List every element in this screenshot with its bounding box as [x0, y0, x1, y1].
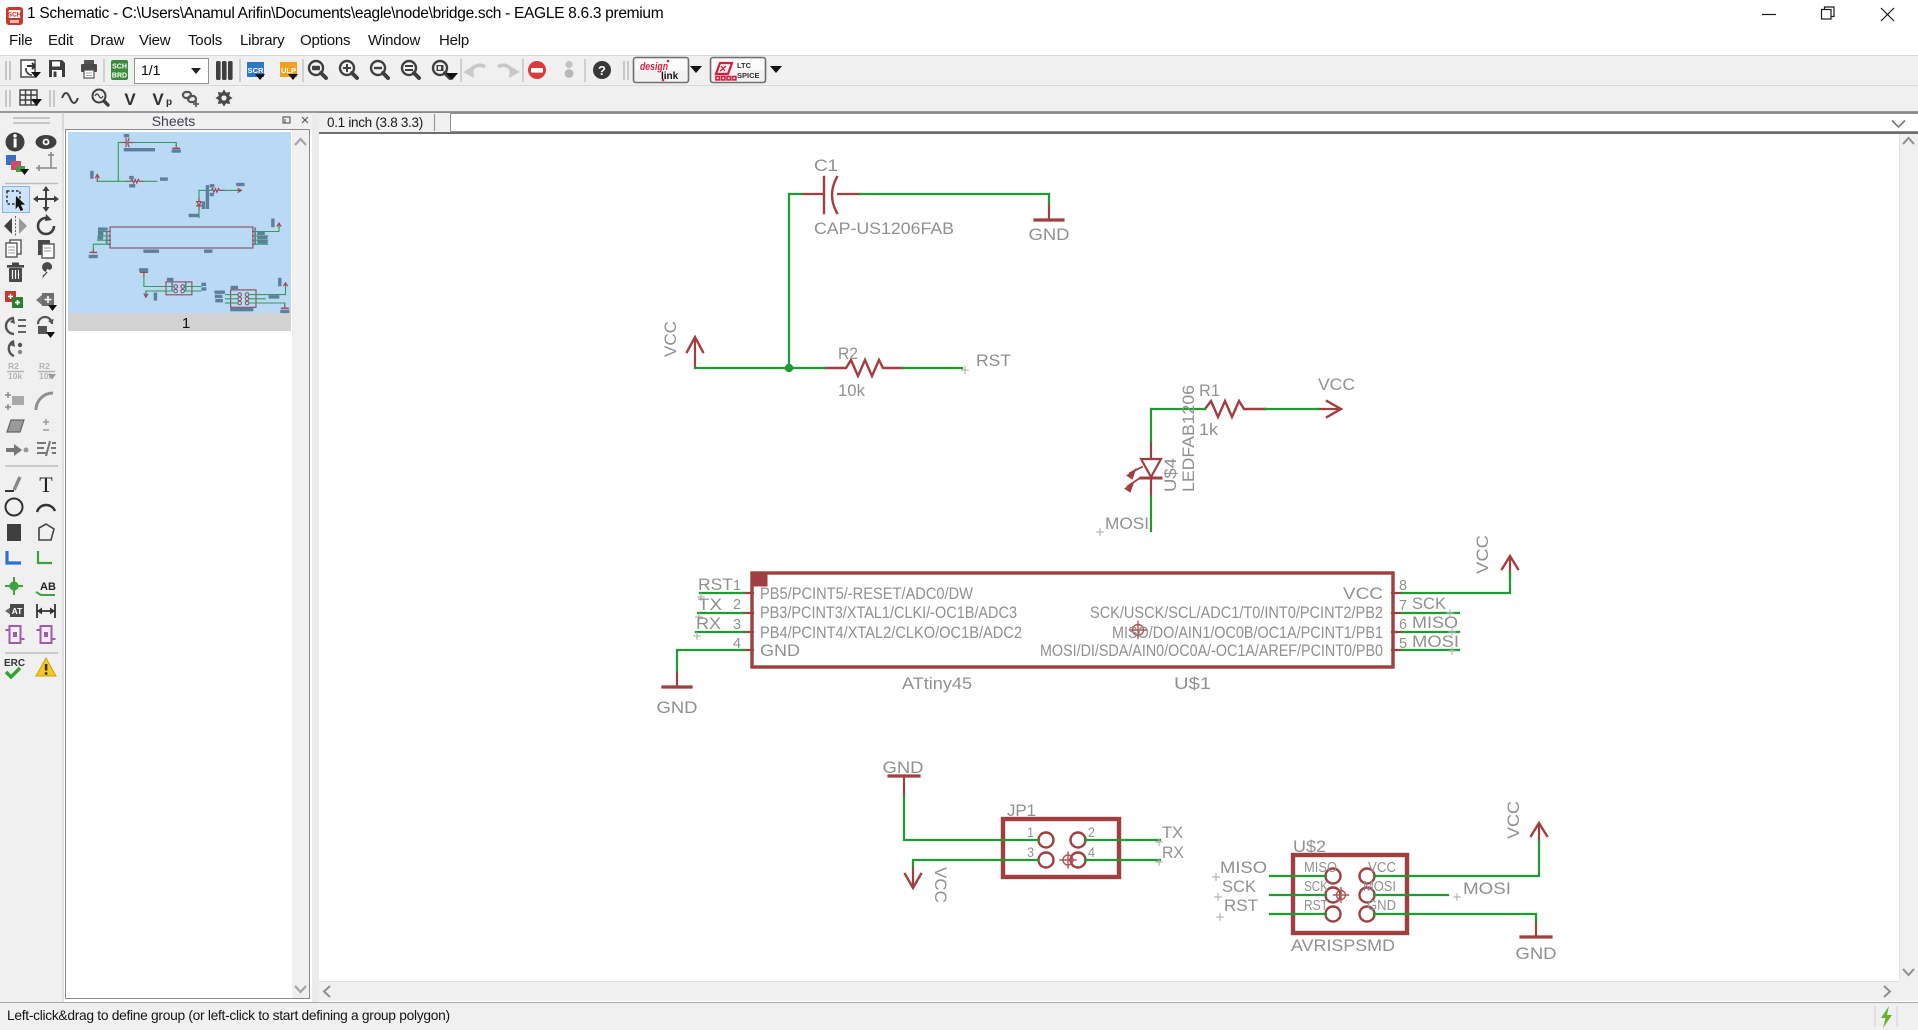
svg-text:AB: AB: [40, 581, 56, 593]
svg-text:VCC: VCC: [1473, 535, 1492, 574]
svg-text:V: V: [124, 90, 136, 109]
svg-text:SCH: SCH: [8, 12, 22, 19]
svg-text:SCK: SCK: [1412, 594, 1447, 613]
svg-text:SCK/USCK/SCL/ADC1/T0/INT0/PCIN: SCK/USCK/SCL/ADC1/T0/INT0/PCINT2/PB2: [1090, 603, 1383, 622]
svg-text:3: 3: [733, 616, 741, 633]
svg-text:10k: 10k: [838, 381, 865, 400]
svg-text:VCC: VCC: [1504, 801, 1523, 839]
svg-text:5: 5: [1399, 635, 1407, 652]
svg-text:C1: C1: [814, 156, 838, 175]
svg-text:VCC: VCC: [661, 321, 680, 357]
svg-text:VCC: VCC: [1368, 860, 1396, 876]
svg-text:GND: GND: [883, 758, 924, 777]
svg-text:TX: TX: [698, 595, 722, 614]
svg-text:SCK: SCK: [1222, 877, 1257, 896]
svg-text:10k: 10k: [8, 371, 22, 381]
svg-text:MISO/DO/AIN1/OC0B/OC1A/PCINT1/: MISO/DO/AIN1/OC0B/OC1A/PCINT1/PB1: [1112, 623, 1383, 642]
svg-text:4: 4: [1088, 844, 1095, 860]
svg-text:VCC: VCC: [1318, 375, 1355, 394]
svg-text:3: 3: [1027, 844, 1034, 860]
svg-text:GND: GND: [657, 698, 698, 717]
svg-text:GND: GND: [760, 641, 800, 660]
svg-text:MOSI/DI/SDA/AIN0/OC0A/-OC1A/AR: MOSI/DI/SDA/AIN0/OC0A/-OC1A/AREF/PCINT0/…: [1040, 641, 1383, 660]
svg-text:ULP: ULP: [281, 66, 296, 75]
svg-text:6: 6: [1399, 616, 1407, 633]
svg-text:AVRISPSMD: AVRISPSMD: [1291, 936, 1395, 955]
svg-text:TX: TX: [1162, 823, 1183, 842]
svg-text:AT: AT: [12, 606, 24, 616]
svg-text:MOSI: MOSI: [1105, 514, 1149, 533]
svg-text:T: T: [39, 472, 53, 497]
svg-text:GND: GND: [1367, 898, 1396, 914]
svg-text:PB5/PCINT5/-RESET/ADC0/DW: PB5/PCINT5/-RESET/ADC0/DW: [760, 584, 973, 603]
svg-text:R2: R2: [39, 361, 50, 371]
svg-text:4: 4: [733, 635, 741, 652]
svg-text:?: ?: [598, 63, 606, 78]
svg-text:MOSI: MOSI: [1463, 879, 1511, 898]
svg-text:MOSI: MOSI: [1363, 879, 1396, 895]
svg-text:LEDFAB1206: LEDFAB1206: [1179, 385, 1198, 492]
svg-text:BRD: BRD: [112, 73, 127, 80]
svg-text:1: 1: [1027, 824, 1034, 840]
svg-text:p: p: [166, 97, 172, 108]
svg-text:VCC: VCC: [1343, 584, 1383, 603]
svg-text:R1: R1: [1199, 381, 1220, 400]
svg-text:SCR: SCR: [248, 66, 264, 75]
svg-text:7: 7: [1399, 597, 1407, 614]
svg-text:RX: RX: [696, 614, 721, 633]
svg-text:MOSI: MOSI: [1412, 632, 1459, 651]
svg-text:U$1: U$1: [1174, 674, 1211, 693]
svg-text:1k: 1k: [1199, 420, 1219, 439]
svg-text:U$4: U$4: [1161, 458, 1180, 492]
svg-text:R2: R2: [838, 344, 858, 363]
svg-text:2: 2: [733, 596, 741, 613]
svg-text:MISO: MISO: [1304, 860, 1337, 876]
svg-text:LTC: LTC: [737, 61, 752, 70]
svg-text:V: V: [152, 90, 164, 109]
svg-text:RST: RST: [976, 351, 1011, 370]
svg-text:RST: RST: [1224, 896, 1258, 915]
svg-text:PB4/PCINT4/XTAL2/CLKO/OC1B/ADC: PB4/PCINT4/XTAL2/CLKO/OC1B/ADC2: [760, 623, 1022, 642]
svg-text:1/1: 1/1: [141, 62, 161, 78]
svg-text:RX: RX: [1162, 843, 1184, 862]
svg-text:2: 2: [1088, 824, 1095, 840]
svg-text:CAP-US1206FAB: CAP-US1206FAB: [814, 219, 954, 238]
svg-text:GND: GND: [1516, 944, 1557, 963]
svg-text:MISO: MISO: [1220, 858, 1267, 877]
svg-text:RST: RST: [1304, 898, 1328, 914]
svg-text:PB3/PCINT3/XTAL1/CLKI/-OC1B/AD: PB3/PCINT3/XTAL1/CLKI/-OC1B/ADC3: [760, 603, 1017, 622]
svg-text:GND: GND: [1029, 225, 1070, 244]
svg-text:ERC: ERC: [4, 658, 25, 669]
svg-text:8: 8: [1399, 577, 1407, 594]
svg-text:SCH: SCH: [112, 64, 127, 71]
svg-text:MISO: MISO: [1412, 613, 1458, 632]
svg-text:U$2: U$2: [1293, 837, 1326, 856]
svg-text:SPICE: SPICE: [737, 71, 760, 80]
svg-text:SCK: SCK: [1304, 879, 1328, 895]
svg-text:ATtiny45: ATtiny45: [902, 674, 972, 693]
svg-text:R2: R2: [8, 361, 19, 371]
svg-text:1: 1: [182, 315, 190, 332]
svg-text:RST: RST: [698, 575, 733, 594]
svg-text:1: 1: [733, 577, 741, 594]
svg-text:VCC: VCC: [931, 867, 950, 903]
svg-text:JP1: JP1: [1007, 801, 1036, 820]
